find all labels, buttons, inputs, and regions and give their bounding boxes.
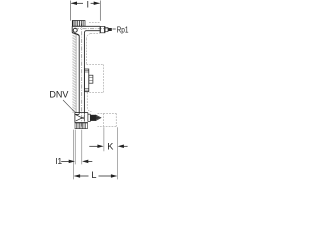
svg-text:K: K [107, 142, 114, 152]
top elbow flange circle [73, 28, 77, 32]
extension line l1 right (pipe axis) [81, 130, 83, 165]
top elbow body + horizontal pipe outline [72, 26, 100, 35]
wall face line [75, 34, 77, 112]
dashed vertical hidden edge to valve box [85, 39, 87, 64]
outlet cone tip [96, 115, 101, 120]
outlet block [88, 114, 90, 121]
stop valve body (middle) [84, 71, 88, 91]
DNV leader line [63, 100, 75, 113]
stop valve spindle tab [89, 75, 93, 83]
svg-text:l: l [87, 0, 89, 10]
dimension K arrows [89, 145, 127, 149]
outlet threaded section (dark) [90, 115, 96, 121]
vertical centerline (dash-dot) [81, 24, 83, 128]
top elbow: ribbed union nut (up) [72, 21, 85, 27]
spigot step block [105, 28, 108, 32]
svg-text:DNV: DNV [49, 89, 68, 99]
bottom angle valve body [75, 113, 88, 123]
leader dash to Rp1 [113, 28, 116, 30]
wall hatch band [72, 34, 76, 112]
dimension l extension line right [99, 1, 101, 21]
svg-text:l1: l1 [55, 156, 62, 166]
dashed hidden edge above pipe [89, 21, 100, 23]
dashed connection box (bottom) [98, 113, 117, 126]
extension line l1 left (wall face) [74, 130, 76, 165]
threaded tip (dark) [108, 28, 112, 31]
dimension L line + arrows [74, 174, 117, 178]
dimension l extension line left [69, 1, 71, 21]
svg-text:Rp1: Rp1 [117, 25, 129, 35]
under-profile hidden line below nut (dashed) [91, 33, 100, 35]
bottom ribbed nut [75, 123, 87, 129]
extension line K left [103, 127, 105, 151]
vertical pipe right edge [83, 34, 85, 114]
dashed actuator box (middle) [85, 64, 104, 92]
horizontal centerline (dash-dot) [75, 28, 113, 30]
dimension l1 arrows [61, 160, 92, 164]
dimension l line + arrows [71, 2, 100, 6]
hidden outlet dashed line below valve [87, 93, 91, 112]
vertical pipe left edge [78, 36, 80, 114]
extension line L left [73, 130, 75, 180]
union nut on horizontal pipe [100, 26, 105, 32]
extension line K/L right [116, 127, 118, 179]
svg-text:L: L [91, 170, 96, 180]
